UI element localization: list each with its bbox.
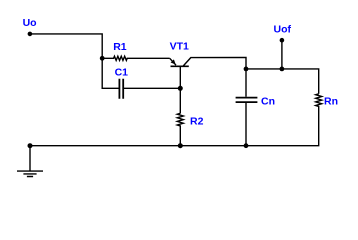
svg-text:Rn: Rn xyxy=(324,96,338,108)
svg-text:Uo: Uo xyxy=(23,17,37,29)
svg-text:R2: R2 xyxy=(190,116,204,128)
svg-text:C1: C1 xyxy=(115,66,129,78)
svg-text:R1: R1 xyxy=(113,41,127,53)
svg-text:Uof: Uof xyxy=(274,24,292,36)
svg-text:Cn: Cn xyxy=(261,96,275,108)
svg-text:VT1: VT1 xyxy=(170,40,189,52)
